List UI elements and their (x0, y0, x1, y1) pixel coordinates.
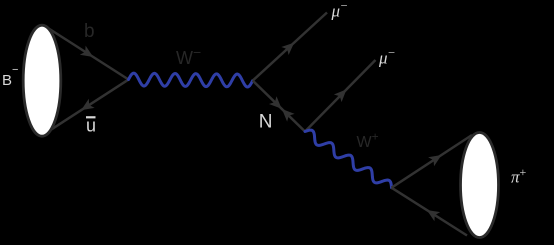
wire: ubar antiquark line (arrow toward blob) (42, 80, 129, 136)
svg-text:b: b (84, 21, 95, 42)
wire: dbar antiquark line from pion blob (392, 188, 468, 236)
wire: u quark line into pion blob (392, 135, 473, 188)
svg-text:N: N (259, 112, 273, 133)
boson W+ wavy propagator (305, 130, 392, 188)
svg-text:u: u (86, 116, 96, 136)
wire: Majorana neutrino N line with clashing arrows (253, 81, 305, 132)
wire: second muon line (305, 60, 376, 132)
wire: first muon line (253, 13, 327, 81)
label ubar (86, 116, 96, 136)
blob: B- meson ellipse (23, 25, 61, 136)
wire: b quark line into W vertex (44, 26, 129, 80)
boson W- wavy propagator (129, 73, 253, 87)
blob: pi+ meson ellipse (461, 133, 499, 238)
